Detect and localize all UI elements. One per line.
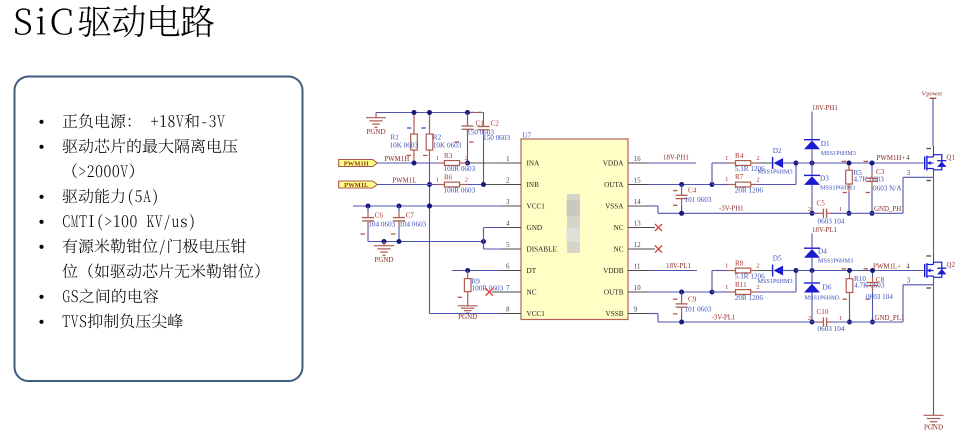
resistor R5 (848, 163, 850, 170)
node C7-gnd (397, 239, 402, 244)
svg-text:1: 1 (506, 156, 509, 163)
wire PGND top rail (376, 112, 484, 114)
node C4-OUTA (679, 182, 684, 187)
wire Vpower-Q1 drain (933, 146, 935, 155)
pin tick R1-1 (407, 154, 412, 156)
wire R11 branch (712, 291, 727, 293)
node column-VCC1 (427, 204, 432, 209)
svg-text:INB: INB (527, 181, 540, 189)
svg-text:10K 0603: 10K 0603 (433, 142, 462, 150)
svg-text:U7: U7 (522, 132, 531, 140)
pin tick R10-1 (842, 268, 847, 270)
pin 2 INB (501, 184, 521, 186)
svg-text:PWM1L: PWM1L (344, 182, 369, 189)
pin tick C2 (478, 111, 483, 113)
svg-text:PWM1L: PWM1L (392, 177, 416, 184)
svg-text:R1: R1 (391, 134, 400, 142)
pin 7 NC (492, 291, 522, 293)
wire -3V-PH1 row (658, 212, 818, 214)
svg-text:9: 9 (634, 307, 638, 314)
svg-text:20R 1206: 20R 1206 (735, 186, 764, 194)
capacitor C1 (467, 113, 469, 121)
svg-text:18V-PL1: 18V-PL1 (812, 227, 838, 234)
svg-text:D2: D2 (773, 147, 782, 155)
node R5--3V (847, 211, 852, 216)
svg-text:100R 0603: 100R 0603 (472, 285, 504, 293)
svg-text:OUTA: OUTA (604, 181, 624, 189)
wire -3V-PL1 row (658, 321, 818, 323)
IC U7 body (521, 139, 628, 320)
svg-text:VCC1: VCC1 (527, 202, 546, 210)
wire Q1 source (933, 170, 935, 178)
pin tick C4-2 (673, 204, 678, 206)
wire PWM1H net (377, 162, 468, 164)
svg-text:20R 1206: 20R 1206 (735, 294, 764, 302)
node C1-PWM1H (465, 161, 470, 166)
svg-text:0603 N/A: 0603 N/A (873, 184, 902, 192)
pin tick C9-2 (673, 313, 678, 315)
pin tick Q1-2 (927, 180, 932, 182)
svg-text:2: 2 (808, 315, 811, 322)
wire Q2 source (933, 277, 935, 285)
ground PGND mid (383, 242, 385, 246)
pin 15 OUTA (628, 184, 648, 186)
svg-text:NC: NC (527, 288, 537, 296)
svg-text:1: 1 (725, 262, 728, 269)
svg-text:C3: C3 (876, 168, 885, 176)
IC watermark (567, 194, 580, 253)
wire OUTB riser (711, 271, 713, 293)
svg-text:18V-PH1: 18V-PH1 (812, 105, 838, 112)
pin 5 DISABLE (501, 248, 521, 250)
wire DISABLE pin5 (484, 248, 504, 250)
svg-text:4: 4 (906, 264, 910, 271)
resistor R4 (727, 162, 736, 164)
node D-line-gate (810, 161, 815, 166)
svg-text:PGND: PGND (374, 256, 393, 264)
svg-text:4.7K 0603: 4.7K 0603 (854, 176, 885, 184)
node C9-OUTB (679, 290, 684, 295)
svg-text:PWM1L+: PWM1L+ (873, 264, 901, 271)
node C3--3V (870, 211, 875, 216)
svg-text:10: 10 (634, 285, 641, 292)
node R5-gate (847, 161, 852, 166)
wire gate row A (796, 162, 925, 164)
svg-text:PGND: PGND (924, 424, 943, 432)
node OUTB-riser (710, 290, 715, 295)
svg-text:VDDA: VDDA (603, 159, 625, 167)
svg-text:MSS1P6HM3: MSS1P6HM3 (758, 168, 793, 175)
svg-text:0603 104: 0603 104 (818, 325, 845, 333)
pin tick R2-1 (423, 154, 428, 156)
svg-text:PGND: PGND (366, 128, 385, 136)
node D3--3V (810, 211, 815, 216)
resistor R1 (413, 113, 415, 135)
svg-text:4: 4 (906, 155, 910, 162)
diode D4 (804, 247, 820, 249)
node R1-PWM1H (412, 161, 417, 166)
node C4--3V (679, 211, 684, 216)
svg-text:1: 1 (725, 155, 728, 162)
svg-text:11: 11 (634, 264, 641, 271)
wire R7 riser (795, 163, 797, 185)
svg-text:12: 12 (634, 242, 641, 249)
resistor R8 (727, 270, 736, 272)
svg-text:R4: R4 (735, 152, 744, 160)
svg-text:MSS1P6HM3: MSS1P6HM3 (820, 184, 855, 191)
svg-text:14: 14 (634, 199, 641, 206)
wire GND_PL1 riser (902, 285, 904, 322)
svg-text:OUTB: OUTB (604, 288, 624, 296)
svg-text:VSSB: VSSB (606, 310, 624, 318)
node C8--3V (870, 320, 875, 325)
capacitor C6 (367, 206, 369, 212)
wire 18V-PH1 drop (811, 112, 813, 140)
pin 3 VCC1 (501, 205, 521, 207)
capacitor C9 (681, 292, 683, 298)
capacitor C5 (822, 209, 824, 218)
node C3-gate (870, 161, 875, 166)
svg-text:GND_PL1: GND_PL1 (875, 315, 905, 322)
pin 1 INA (501, 162, 521, 164)
wire VSSB pin9 (648, 313, 658, 315)
diode D5 (772, 265, 774, 277)
svg-text:D6: D6 (823, 284, 832, 292)
svg-text:R11: R11 (735, 281, 747, 289)
no-connect pin13 (655, 224, 662, 231)
capacitor C3 (871, 163, 873, 173)
bullet list (39, 113, 259, 328)
pin tick R2-2 (422, 127, 426, 129)
diode D3 (811, 163, 813, 175)
wire R11 riser (795, 271, 797, 293)
svg-text:4: 4 (506, 220, 510, 227)
wire GND_PH1 row (832, 212, 903, 214)
resistor R2 (429, 113, 431, 135)
svg-text:C7: C7 (406, 211, 415, 219)
svg-text:3: 3 (907, 170, 911, 177)
svg-text:150 0603: 150 0603 (483, 134, 510, 142)
svg-text:C10: C10 (817, 308, 829, 316)
svg-text:Q2: Q2 (947, 262, 956, 269)
no-connect pin7 (486, 288, 493, 295)
wire Q1-Q2 drain (933, 254, 935, 262)
svg-text:NC: NC (614, 224, 624, 232)
svg-text:MSS1P6HM3: MSS1P6HM3 (805, 295, 840, 302)
pin 16 VDDA (628, 162, 648, 164)
svg-text:MSS1P6HM3: MSS1P6HM3 (758, 278, 793, 285)
svg-text:0603 104: 0603 104 (866, 293, 893, 301)
pin tick R5-2 (843, 192, 848, 194)
node C7-VCC1 (397, 204, 402, 209)
wire 18V-PL1 drop (811, 234, 813, 249)
wire VCC1 pin3 net (353, 205, 501, 207)
pin tick C6 (361, 233, 366, 235)
pin tick C1-2 (455, 141, 460, 143)
node bracket-gnd (481, 239, 486, 244)
pin tick Q2-1 (927, 255, 932, 257)
node R9-DT (465, 268, 470, 273)
capacitor C7 (398, 206, 400, 212)
wire R8 branch (712, 270, 727, 272)
wire D5-gate (783, 270, 796, 272)
svg-text:1: 1 (839, 206, 842, 213)
resistor R7 (727, 184, 736, 186)
wire GND_PL1 row (832, 321, 903, 323)
capacitor C2 (483, 113, 485, 122)
svg-text:15: 15 (634, 178, 641, 185)
svg-text:R2: R2 (433, 134, 442, 142)
svg-text:R8: R8 (735, 259, 744, 267)
node D6--3V (810, 320, 815, 325)
wire D2-gate (783, 162, 796, 164)
wire VSSA pin14 (648, 205, 658, 207)
node C9--3V (679, 320, 684, 325)
svg-text:VCC1: VCC1 (527, 310, 546, 318)
no-connect pin12 (655, 245, 662, 252)
node C8-gate (870, 268, 875, 273)
port PWM1H (339, 160, 378, 167)
svg-text:1: 1 (725, 284, 728, 291)
svg-text:1: 1 (436, 177, 439, 184)
diode D2 (772, 157, 774, 169)
svg-text:PWM1H: PWM1H (344, 160, 369, 167)
node R2-PWM1L (427, 182, 432, 187)
capacitor C8 (872, 271, 874, 278)
ground PGND bottom-right (924, 414, 944, 416)
pin 13 NC (628, 227, 655, 229)
svg-text:18V-PH1: 18V-PH1 (663, 155, 689, 162)
svg-text:7: 7 (506, 285, 510, 292)
ground PGND R9 (458, 305, 478, 307)
node rail-R2 (427, 110, 432, 115)
svg-text:C5: C5 (817, 199, 826, 207)
svg-text:0603 104: 0603 104 (818, 217, 845, 225)
pin tick C8-1 (864, 268, 869, 270)
svg-text:VDDB: VDDB (603, 267, 624, 275)
pin 14 VSSA (628, 205, 648, 207)
node R2-VCC1 (427, 204, 432, 209)
pin tick C9-1 (673, 298, 678, 300)
wire OUTA riser (711, 163, 713, 185)
svg-text:-3V-PL1: -3V-PL1 (712, 315, 736, 322)
pin tick Q2-2 (927, 287, 932, 289)
svg-text:MSS1P6HM3: MSS1P6HM3 (818, 257, 853, 264)
capacitor C4 (681, 185, 683, 190)
pin 12 NC (628, 248, 655, 250)
wire 18V-PH1 pin16 (648, 162, 696, 164)
pin 10 OUTB (628, 291, 648, 293)
svg-text:VSSA: VSSA (605, 202, 624, 210)
pin tick R9-2 (458, 296, 463, 298)
svg-text:2: 2 (465, 155, 468, 162)
svg-text:10K 0603: 10K 0603 (390, 142, 419, 150)
svg-text:Vpower: Vpower (922, 90, 944, 97)
node R11-gate (794, 268, 799, 273)
pin tick C3-2 (866, 192, 871, 194)
wire DT pin6 net (452, 270, 501, 272)
pin tick R10-2 (843, 298, 848, 300)
svg-text:5: 5 (506, 242, 510, 249)
node R10--3V (847, 320, 852, 325)
svg-text:2: 2 (506, 177, 510, 184)
svg-text:100R 0603: 100R 0603 (444, 165, 476, 173)
svg-text:DT: DT (527, 267, 537, 275)
slide title SiC驱动电路 (15, 8, 31, 34)
svg-text:1: 1 (436, 155, 439, 162)
info box (15, 77, 303, 382)
svg-text:DISABLE: DISABLE (527, 245, 558, 253)
pin tick C1 (471, 111, 476, 113)
svg-text:PWM1H: PWM1H (384, 156, 409, 163)
wire GND_PH1 riser (902, 177, 904, 213)
capacitor C10 (822, 317, 824, 326)
svg-text:2: 2 (756, 284, 759, 291)
wire bracket pins4-5 (483, 228, 485, 250)
svg-text:104 0603: 104 0603 (368, 221, 395, 229)
pin 11 VDDB (628, 270, 648, 272)
pin tick C2-2 (469, 141, 474, 143)
svg-text:C2: C2 (491, 119, 500, 127)
node R10-gate (847, 268, 852, 273)
svg-text:101 0603: 101 0603 (685, 305, 712, 313)
svg-text:100R 0603: 100R 0603 (444, 187, 476, 195)
svg-text:6: 6 (506, 263, 510, 270)
svg-text:R3: R3 (444, 152, 453, 160)
wire R4 branch (712, 162, 727, 164)
svg-text:D4: D4 (818, 247, 827, 255)
wire OUTB pin10 (648, 291, 712, 293)
wire R7 branch (712, 184, 727, 186)
svg-text:PWM1H+: PWM1H+ (877, 155, 906, 162)
pin 4 GND (501, 227, 521, 229)
resistor R9 (467, 271, 469, 279)
svg-text:Q1: Q1 (947, 154, 956, 161)
wire VCC1 pin8 net (430, 313, 502, 315)
svg-text:8: 8 (506, 306, 510, 313)
resistor R6 (437, 184, 444, 186)
wire GND pin4 (484, 227, 504, 229)
svg-text:1: 1 (839, 315, 842, 322)
svg-text:MSS1P6HM3: MSS1P6HM3 (821, 150, 856, 157)
wire PWM1L net (377, 184, 484, 186)
svg-text:2: 2 (756, 155, 759, 162)
svg-text:GND: GND (527, 224, 543, 232)
svg-text:-3V-PH1: -3V-PH1 (719, 206, 744, 213)
node OUTA-riser (710, 182, 715, 187)
svg-text:GND_PH1: GND_PH1 (874, 206, 905, 213)
svg-text:2: 2 (808, 206, 811, 213)
svg-text:INA: INA (527, 159, 541, 167)
transistor Q2 (924, 264, 926, 277)
svg-text:2: 2 (756, 177, 759, 184)
svg-text:C6: C6 (375, 211, 384, 219)
svg-text:NC: NC (614, 245, 624, 253)
diode D1 (804, 139, 820, 141)
svg-text:C9: C9 (688, 295, 697, 303)
svg-text:18V-PL1: 18V-PL1 (666, 263, 692, 270)
pin 8 VCC1 (501, 313, 521, 315)
resistor R10 (849, 271, 851, 279)
pin 9 VSSB (628, 313, 648, 315)
wire VCC1 column (429, 163, 431, 313)
diode D6 (811, 271, 813, 284)
pin tick C3-1 (864, 160, 869, 162)
svg-text:D1: D1 (821, 140, 830, 148)
pin tick Q1-1 (927, 148, 932, 150)
svg-text:R6: R6 (444, 173, 453, 181)
node rail-R1 (412, 110, 417, 115)
svg-text:D5: D5 (773, 254, 782, 262)
pin tick C7 (391, 233, 396, 235)
svg-text:PGND: PGND (458, 313, 477, 321)
port PWM1L (339, 181, 378, 188)
node D-line-gateB (810, 268, 815, 273)
pin tick R5-1 (842, 160, 847, 162)
svg-text:D3: D3 (820, 174, 829, 182)
svg-text:2: 2 (756, 262, 759, 269)
resistor R11 (727, 291, 736, 293)
svg-text:C8: C8 (876, 276, 885, 284)
pin tick C4-1 (673, 190, 678, 192)
svg-text:1: 1 (725, 176, 728, 183)
node C2-PWM1L (481, 182, 486, 187)
resistor R3 (437, 162, 444, 164)
node rail-C1 (465, 110, 470, 115)
svg-text:3: 3 (907, 277, 911, 284)
svg-text:R7: R7 (735, 173, 744, 181)
svg-text:13: 13 (634, 221, 641, 228)
wire ground bus (368, 241, 484, 243)
node gnd-stem (382, 239, 387, 244)
transistor Q1 (924, 157, 926, 170)
svg-text:3: 3 (506, 199, 510, 206)
svg-text:104 0603: 104 0603 (399, 221, 426, 229)
svg-text:C4: C4 (688, 187, 697, 195)
pin 6 DT (501, 270, 521, 272)
svg-text:16: 16 (634, 156, 641, 163)
node C6-VCC1 (366, 204, 371, 209)
wire OUTA pin15 (648, 184, 712, 186)
wire gate row B (796, 270, 925, 272)
svg-text:101 0603: 101 0603 (685, 196, 712, 204)
ground PGND top-left (375, 113, 377, 118)
pin tick R1-2 (407, 127, 411, 129)
svg-text:2: 2 (465, 177, 468, 184)
node R7-gate (794, 161, 799, 166)
wire 18V-PL1 pin11 (648, 270, 697, 272)
pin tick C8-2 (866, 298, 871, 300)
